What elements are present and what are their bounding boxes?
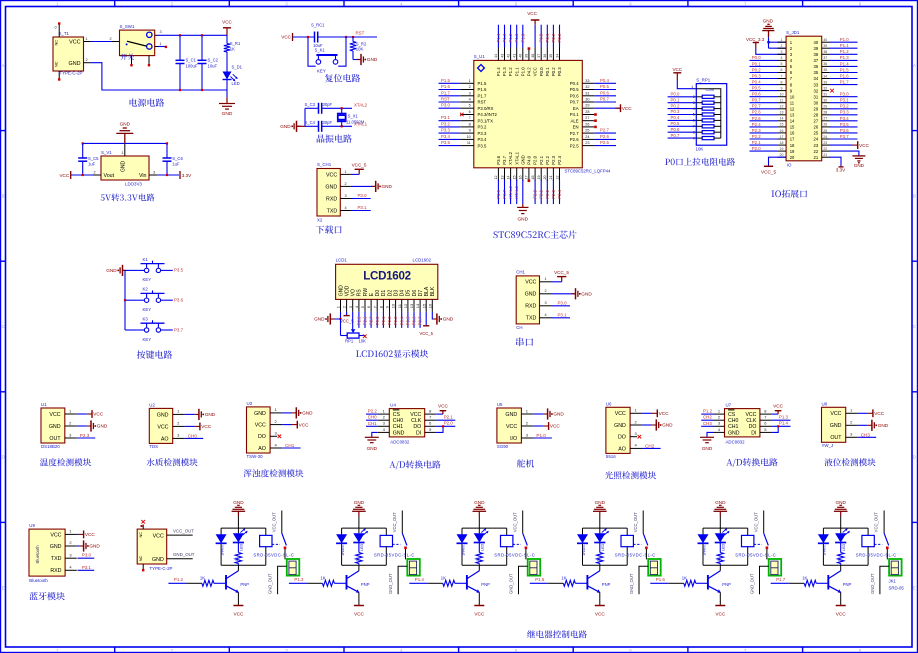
junction: [341, 125, 343, 127]
wire: [382, 312, 384, 328]
wire gnd stem: [358, 516, 360, 528]
wire bottom row: [305, 125, 319, 127]
wire vertical: [304, 108, 306, 126]
svg-text:3: 3: [344, 194, 346, 198]
resistor 1K: [358, 543, 360, 553]
power ground left: [123, 269, 127, 271]
pin stub bottom: [142, 564, 144, 569]
wire top row: [305, 107, 319, 109]
svg-text:1: 1: [634, 408, 637, 413]
svg-text:RS: RS: [357, 289, 363, 297]
svg-text:P0.7: P0.7: [671, 133, 680, 138]
pin stub 3: [778, 53, 787, 55]
pin 27 of JD1: [822, 120, 829, 122]
svg-text:S_SW1: S_SW1: [120, 24, 135, 29]
connector U8: [822, 407, 846, 442]
svg-text:1K: 1K: [717, 556, 721, 561]
svg-text:30: 30: [585, 98, 589, 102]
resistor S_R2 10K: [352, 36, 354, 38]
wire: [439, 120, 461, 122]
pin 38 of JD1: [822, 53, 829, 55]
svg-text:1: 1: [85, 37, 87, 41]
no ERC marker: [594, 113, 597, 116]
pin 11 wire: [750, 102, 778, 104]
svg-text:GND: GND: [728, 430, 740, 436]
svg-text:10K: 10K: [696, 147, 704, 152]
svg-text:2: 2: [85, 58, 87, 62]
power ground: [292, 412, 296, 414]
wire: [594, 138, 616, 140]
svg-text:20: 20: [790, 155, 795, 160]
wire: [829, 102, 858, 104]
relay switch contact: [642, 511, 644, 534]
no ERC marker: [528, 47, 531, 50]
wire: [829, 53, 858, 55]
wire: [533, 437, 552, 439]
svg-text:K2: K2: [143, 287, 149, 292]
svg-text:VCC: VCC: [50, 532, 61, 538]
svg-text:JK1: JK1: [889, 579, 897, 584]
power ground: [652, 424, 656, 426]
svg-text:GND: GND: [763, 19, 774, 24]
svg-text:5: 5: [360, 305, 365, 308]
svg-text:11.0592M: 11.0592M: [346, 119, 365, 124]
svg-text:XTAL1: XTAL1: [514, 185, 519, 198]
svg-text:GND: GND: [50, 544, 62, 550]
svg-text:P2.3: P2.3: [80, 433, 90, 438]
svg-text:22: 22: [555, 176, 559, 180]
wire input: [650, 582, 668, 584]
svg-text:CH2: CH2: [645, 444, 655, 449]
svg-text:20: 20: [543, 176, 547, 180]
svg-text:Com: Com: [706, 87, 715, 92]
power VCC: [652, 412, 657, 414]
pin 4 of CH1: [540, 317, 552, 319]
pin 8 of U4: [425, 413, 437, 415]
pin 23 of JD1: [822, 144, 829, 146]
svg-text:GND: GND: [120, 121, 131, 126]
svg-text:26: 26: [823, 123, 827, 127]
svg-text:KEY: KEY: [143, 337, 152, 342]
svg-text:1K: 1K: [200, 576, 205, 581]
capacitor S_C4 30pF: [318, 121, 320, 132]
svg-text:VCC: VCC: [595, 612, 606, 617]
svg-text:GND: GND: [443, 317, 454, 322]
svg-text:GND: GND: [205, 412, 216, 417]
power VCC_5: [358, 169, 360, 174]
wire loop top: [462, 527, 507, 529]
svg-text:LED: LED: [232, 81, 240, 86]
svg-text:U4: U4: [390, 402, 396, 407]
svg-text:LED: LED: [240, 543, 244, 551]
connector CH1 serial: [516, 276, 539, 324]
svg-text:AO: AO: [618, 446, 626, 452]
svg-text:P0.4: P0.4: [570, 81, 579, 86]
wire: [351, 198, 371, 200]
svg-text:P3.3: P3.3: [441, 128, 450, 133]
svg-text:A: A: [2, 63, 5, 68]
wire loop top: [583, 527, 628, 529]
power VCC: [354, 605, 364, 607]
svg-text:SRD-05VDC-SL-C: SRD-05VDC-SL-C: [494, 552, 535, 557]
svg-text:37: 37: [823, 56, 827, 60]
wire DI tied to DO: [436, 426, 443, 432]
pin 17 wire: [750, 138, 778, 140]
wire: [439, 107, 461, 109]
junction: [442, 425, 444, 427]
capacitor S_RC1 10uF: [314, 32, 316, 43]
module U9 Bluetooth: [29, 529, 65, 576]
svg-text:13: 13: [780, 111, 784, 115]
pin 2 GND of S_T1: [84, 62, 91, 64]
pin 2 of U3: [270, 424, 282, 426]
svg-text:1K: 1K: [230, 46, 235, 51]
svg-text:GND_OUT: GND_OUT: [268, 573, 273, 594]
pin stub 9: [778, 90, 787, 92]
svg-text:P2.0: P2.0: [533, 155, 538, 164]
svg-text:S_U1: S_U1: [474, 54, 486, 59]
svg-text:2: 2: [171, 1, 174, 6]
svg-text:P1.5: P1.5: [535, 577, 545, 582]
svg-text:3: 3: [526, 432, 529, 437]
relay coil SRD-05VDC-SL-C: [626, 528, 628, 535]
wire GND_OUT: [760, 566, 769, 594]
wire gnd stem: [478, 516, 480, 528]
svg-text:TXD: TXD: [327, 208, 338, 214]
svg-text:VCC: VCC: [527, 11, 537, 16]
terminal block connector: [889, 559, 902, 576]
svg-text:1K: 1K: [356, 556, 360, 561]
wire: [642, 447, 661, 449]
LED indicator: [478, 528, 480, 533]
svg-text:VCC: VCC: [93, 412, 104, 417]
pin stub 1: [778, 41, 787, 43]
wire VCC: [436, 413, 443, 415]
wire pin16 to GND: [432, 312, 437, 319]
wire: [668, 137, 697, 139]
svg-text:P0.3: P0.3: [557, 33, 562, 42]
svg-text:4: 4: [400, 1, 403, 6]
wire pin1: [769, 41, 787, 43]
svg-text:VCC: VCC: [859, 143, 870, 148]
svg-text:31: 31: [823, 93, 827, 97]
wire: [322, 107, 352, 109]
terminal block connector: [287, 559, 300, 576]
pin 6 of U7: [760, 425, 772, 427]
svg-text:7: 7: [781, 74, 783, 78]
svg-text:LED: LED: [722, 543, 726, 551]
no connect: [638, 435, 642, 439]
svg-text:P0.6: P0.6: [570, 94, 579, 99]
svg-text:1: 1: [718, 409, 721, 414]
svg-text:BLA: BLA: [424, 286, 430, 296]
svg-text:2: 2: [177, 421, 180, 426]
wire: [226, 52, 228, 72]
svg-text:P0.6: P0.6: [752, 92, 761, 97]
svg-text:P1.3: P1.3: [779, 415, 789, 420]
wire: [559, 180, 561, 205]
svg-text:D6: D6: [412, 290, 418, 297]
svg-text:3: 3: [469, 91, 471, 95]
pin 4 of U9: [65, 569, 77, 571]
pin 39 of JD1: [822, 47, 829, 49]
svg-text:27: 27: [823, 117, 827, 121]
svg-text:GND: GND: [382, 184, 393, 189]
wire GND_OUT: [398, 566, 407, 594]
pin 7 wire: [750, 78, 778, 80]
svg-text:VCC_5: VCC_5: [352, 163, 367, 168]
svg-text:5: 5: [469, 104, 471, 108]
svg-text:P1.7: P1.7: [441, 90, 450, 95]
wire: [594, 132, 616, 134]
LED indicator: [719, 528, 721, 533]
wire: [439, 89, 461, 91]
wire: [594, 95, 616, 97]
svg-text:4: 4: [383, 427, 386, 432]
key switch K3: [125, 329, 138, 331]
wire: [594, 107, 620, 109]
power ground: [87, 425, 91, 427]
power VCC: [615, 107, 620, 109]
svg-text:KEY: KEY: [143, 277, 152, 282]
wire: [829, 138, 858, 140]
svg-text:37: 37: [537, 54, 541, 58]
wire: [71, 174, 93, 176]
svg-text:6: 6: [764, 421, 767, 426]
svg-text:P1.2: P1.2: [840, 49, 849, 54]
transistor PNP: [466, 575, 468, 590]
svg-text:16: 16: [790, 131, 795, 136]
svg-text:D7: D7: [418, 290, 424, 297]
wire gnd stem: [840, 516, 842, 528]
svg-text:VCC_OUT: VCC_OUT: [874, 512, 879, 532]
svg-text:GND: GND: [854, 163, 865, 168]
pin stub 18: [778, 144, 787, 146]
pin stub top of S_T1: [58, 25, 60, 38]
svg-text:D3: D3: [393, 290, 399, 297]
wire: [701, 413, 713, 415]
wire input: [409, 582, 427, 584]
svg-text:VO: VO: [351, 289, 357, 296]
wire loop bottom: [342, 564, 387, 566]
svg-text:P3.6: P3.6: [496, 155, 501, 164]
svg-text:0: 0: [55, 25, 57, 29]
pin 4 of U4: [378, 431, 390, 433]
caption 按键电路: [137, 350, 173, 358]
power ground right: [372, 185, 376, 187]
svg-text:P2.5: P2.5: [600, 140, 609, 145]
wire: [668, 114, 697, 116]
LED indicator: [840, 528, 842, 533]
wire: [552, 305, 571, 307]
resistor 1K: [719, 543, 721, 553]
svg-text:LCD1: LCD1: [336, 258, 348, 263]
svg-text:RST: RST: [441, 97, 450, 102]
svg-text:SRD-05VDC-SL-C: SRD-05VDC-SL-C: [615, 552, 656, 557]
svg-text:GND: GND: [702, 446, 713, 451]
wire: [439, 95, 461, 97]
svg-text:2: 2: [69, 420, 72, 425]
switch pin stubs bottom: [131, 56, 133, 64]
svg-text:6: 6: [429, 421, 432, 426]
svg-text:P3.2: P3.2: [840, 104, 849, 109]
svg-text:VCC: VCC: [715, 612, 726, 617]
wire loop top: [703, 527, 748, 529]
svg-text:BLK: BLK: [430, 286, 436, 296]
svg-text:30pF: 30pF: [323, 102, 333, 107]
svg-text:5516: 5516: [606, 454, 616, 459]
svg-text:PNP: PNP: [481, 582, 490, 587]
power VCC: [195, 425, 200, 427]
power VCC: [474, 605, 484, 607]
svg-text:3.3V: 3.3V: [182, 173, 192, 178]
svg-text:VCC: VCC: [59, 173, 69, 178]
svg-text:44: 44: [494, 54, 498, 58]
pin stub bottom of S_T1: [58, 71, 60, 79]
svg-text:18: 18: [790, 143, 795, 148]
wire: [829, 96, 858, 98]
pin 4 of S_CH1: [340, 210, 351, 212]
svg-text:GND: GND: [715, 500, 726, 505]
svg-text:P1.1: P1.1: [514, 67, 519, 76]
svg-text:1: 1: [526, 408, 529, 413]
svg-text:1: 1: [159, 42, 161, 46]
svg-text:NC: NC: [54, 61, 59, 67]
power 3.3V: [838, 166, 843, 168]
wire: [322, 125, 352, 127]
power VCC_5 pin2: [346, 312, 348, 316]
svg-text:RP1: RP1: [345, 339, 354, 344]
svg-text:GND_OUT: GND_OUT: [750, 573, 755, 594]
pin 3 of U9: [65, 557, 77, 559]
svg-text:4: 4: [469, 98, 471, 102]
wire: [510, 180, 512, 205]
svg-text:GND: GND: [338, 285, 344, 297]
svg-text:13: 13: [409, 303, 414, 308]
svg-text:P0.2: P0.2: [551, 67, 556, 76]
wire: [77, 413, 87, 415]
svg-text:P3.1: P3.1: [840, 98, 849, 103]
svg-text:GND: GND: [367, 446, 378, 451]
svg-text:P0.1: P0.1: [545, 33, 550, 42]
wire: [829, 72, 858, 74]
svg-text:P0.7: P0.7: [600, 97, 609, 102]
svg-text:VCC: VCC: [85, 532, 96, 537]
svg-text:P2.6: P2.6: [752, 110, 761, 115]
wire: [575, 582, 587, 584]
svg-text:4: 4: [274, 442, 277, 447]
wire: [407, 312, 409, 328]
svg-text:E: E: [913, 585, 916, 590]
wire: [534, 25, 536, 48]
relay switch contact: [401, 511, 403, 534]
svg-text:VCC: VCC: [49, 412, 60, 418]
wire: [516, 180, 518, 205]
svg-text:10: 10: [391, 303, 396, 308]
pin 16 wire: [750, 132, 778, 134]
svg-text:RST: RST: [356, 30, 365, 35]
wire: [594, 82, 616, 84]
wire: [829, 157, 841, 167]
svg-text:6: 6: [366, 305, 371, 308]
wire: [413, 312, 415, 328]
svg-text:GND_OUT: GND_OUT: [629, 573, 634, 594]
svg-text:VCC_OUT: VCC_OUT: [633, 512, 638, 532]
svg-text:12: 12: [790, 107, 795, 112]
pin 3 of U6: [630, 436, 637, 438]
svg-text:1K: 1K: [476, 556, 480, 561]
pin 33 of JD1: [822, 84, 829, 86]
svg-text:EN: EN: [573, 125, 579, 130]
svg-text:D4: D4: [400, 290, 406, 297]
svg-text:1: 1: [469, 79, 471, 83]
svg-text:17: 17: [790, 137, 795, 142]
svg-text:40: 40: [519, 54, 523, 58]
svg-text:LCD1602: LCD1602: [363, 269, 411, 282]
svg-text:29: 29: [814, 107, 819, 112]
pin stub 20: [778, 156, 787, 158]
svg-text:GND: GND: [878, 423, 889, 428]
wire: [540, 180, 542, 205]
svg-text:34: 34: [555, 54, 559, 58]
svg-text:SG90: SG90: [497, 444, 509, 449]
svg-text:P3.4: P3.4: [478, 137, 487, 142]
svg-text:VCC: VCC: [438, 404, 449, 409]
svg-text:7: 7: [764, 415, 767, 420]
svg-text:P3.0/RX: P3.0/RX: [478, 106, 494, 111]
pin stub 8: [778, 84, 787, 86]
svg-text:P3.7: P3.7: [174, 327, 184, 332]
svg-text:1: 1: [344, 170, 346, 174]
relay coil SRD-05VDC-SL-C: [506, 528, 508, 535]
svg-text:P3.4: P3.4: [441, 134, 450, 139]
svg-text:DI: DI: [751, 430, 756, 436]
capacitor S_C6 1uF: [166, 142, 168, 144]
key switch K2: [125, 299, 138, 301]
svg-text:8: 8: [469, 122, 471, 126]
svg-text:VCC_OUT: VCC_OUT: [392, 512, 397, 532]
pin 1 of U6: [630, 412, 642, 414]
label 开关: [121, 54, 134, 60]
junction: [777, 425, 779, 427]
terminal block connector: [528, 559, 541, 576]
svg-text:2: 2: [383, 415, 386, 420]
svg-text:VCC: VCC: [615, 411, 626, 417]
svg-text:S_RC1: S_RC1: [311, 23, 325, 28]
pin VCC of TYPE-C: [167, 534, 193, 536]
svg-text:P4.2: P4.2: [527, 67, 532, 76]
svg-text:1K: 1K: [235, 556, 239, 561]
svg-text:P1.5: P1.5: [441, 78, 450, 83]
svg-text:P1.6: P1.6: [656, 577, 666, 582]
caption 复位电路: [325, 74, 360, 82]
svg-text:3: 3: [274, 431, 277, 436]
wire: [77, 425, 87, 427]
pin 2 of U7: [713, 419, 725, 421]
wire loop left: [220, 528, 222, 565]
svg-text:CH1: CH1: [393, 424, 403, 430]
svg-text:DO: DO: [258, 434, 266, 440]
svg-text:CH1: CH1: [516, 270, 525, 275]
connector U5: [497, 408, 522, 443]
diode 1N4007: [698, 534, 709, 543]
wire: [439, 138, 461, 140]
svg-text:KEY: KEY: [143, 307, 152, 312]
svg-text:P0.5: P0.5: [671, 121, 680, 126]
svg-text:30: 30: [823, 99, 827, 103]
pin 3 of U7: [713, 425, 725, 427]
power ground: [700, 436, 714, 438]
